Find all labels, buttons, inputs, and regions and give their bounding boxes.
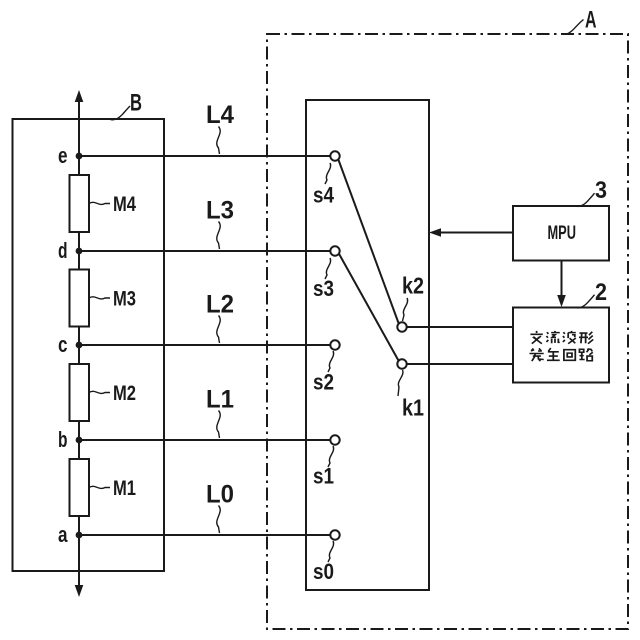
switch arm s3-k1 — [339, 254, 399, 361]
leader to s0 — [328, 541, 334, 562]
svg-text:MPU: MPU — [548, 223, 577, 244]
contact s2 — [330, 340, 339, 349]
svg-text:L1: L1 — [206, 385, 234, 413]
svg-text:M3: M3 — [113, 288, 136, 311]
block B outline box — [13, 119, 165, 571]
leader to L4 — [217, 127, 220, 155]
wire k2 to circuit 2 — [407, 326, 513, 328]
発 — [529, 348, 543, 361]
leader to s4 — [325, 163, 331, 184]
leader to L0 — [217, 506, 220, 534]
svg-text:A: A — [585, 7, 597, 34]
svg-text:L4: L4 — [206, 101, 234, 129]
contact s4 — [330, 151, 339, 160]
wire L3 — [79, 250, 330, 252]
svg-text:2: 2 — [595, 279, 607, 306]
波 — [563, 331, 576, 344]
wire L4 — [79, 155, 330, 157]
AC waveform generator circuit box 2 — [513, 308, 609, 383]
svg-text:L0: L0 — [206, 480, 234, 508]
svg-text:e: e — [58, 143, 68, 168]
svg-text:s0: s0 — [313, 559, 334, 584]
node e — [76, 153, 83, 160]
svg-text:M4: M4 — [113, 193, 136, 216]
wire L1 — [79, 439, 330, 441]
leader to M1 — [89, 486, 110, 488]
leader to L1 — [217, 411, 220, 439]
wire L0 — [79, 534, 330, 536]
交 — [530, 331, 542, 344]
leader to s2 — [328, 351, 334, 372]
svg-text:k2: k2 — [402, 273, 424, 299]
leader to s1 — [328, 446, 334, 467]
svg-text:s3: s3 — [313, 276, 334, 301]
leader to L2 — [217, 316, 220, 344]
svg-text:M1: M1 — [113, 477, 136, 500]
svg-text:M2: M2 — [113, 382, 136, 405]
leader to 2 — [575, 295, 595, 308]
svg-text:s4: s4 — [313, 183, 334, 208]
MPU box U3 — [513, 206, 609, 261]
路 — [579, 348, 592, 360]
resistor M1 — [70, 459, 90, 516]
svg-text:c: c — [58, 332, 68, 357]
leader to M2 — [89, 391, 110, 393]
switch arm s4-k2 — [338, 159, 398, 323]
leader to 3 — [575, 193, 595, 206]
resistor M2 — [70, 364, 90, 421]
control bus arrow MPU to switch unit — [438, 232, 513, 234]
wire k1 to circuit 2 — [407, 363, 513, 365]
svg-text:s2: s2 — [313, 370, 334, 395]
contact s1 — [330, 435, 339, 444]
pole k2 — [397, 322, 406, 331]
svg-text:3: 3 — [595, 177, 607, 204]
leader to k1 — [398, 370, 403, 396]
leader to L3 — [217, 222, 220, 250]
resistor M3 — [70, 270, 90, 327]
switch unit box — [306, 100, 429, 590]
contact s0 — [330, 530, 339, 539]
svg-text:k1: k1 — [402, 395, 424, 421]
node c — [76, 342, 83, 349]
svg-text:L3: L3 — [206, 196, 234, 224]
svg-text:a: a — [58, 522, 68, 547]
contact s3 — [330, 246, 339, 255]
kanji text 交流波形 発生回路 (AC waveform generation circuit) — [529, 331, 593, 361]
svg-text:B: B — [130, 90, 142, 117]
leader to A — [562, 20, 584, 35]
回 — [564, 350, 575, 361]
wire L2 — [79, 344, 330, 346]
svg-text:L2: L2 — [206, 290, 234, 318]
leader to M4 — [89, 202, 110, 204]
arrow down (bottom terminal) — [75, 585, 84, 597]
leader to k2 — [403, 298, 408, 321]
生 — [547, 348, 560, 360]
arrow up (top terminal) — [75, 90, 84, 102]
node d — [76, 248, 83, 255]
pole k1 — [397, 359, 406, 368]
svg-text:s1: s1 — [313, 464, 334, 489]
node b — [76, 437, 83, 444]
ladder wire (vertical bus) — [78, 100, 80, 587]
node a — [76, 532, 83, 539]
enclosure A dash-dot boundary box — [267, 34, 628, 629]
leader to s3 — [325, 258, 331, 279]
流 — [546, 331, 559, 343]
resistor M4 — [70, 175, 90, 232]
形 — [579, 332, 593, 344]
arrow MPU to circuit 2 — [561, 261, 563, 299]
leader to M3 — [89, 297, 110, 299]
leader to B — [110, 106, 130, 120]
svg-text:d: d — [58, 238, 68, 263]
svg-text:b: b — [58, 427, 68, 452]
